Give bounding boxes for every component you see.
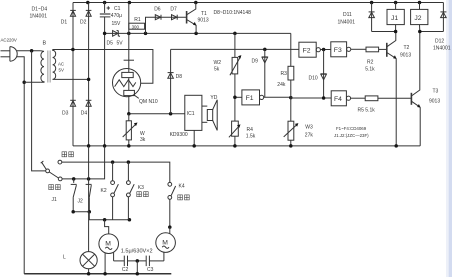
- svg-text:R3: R3: [281, 71, 288, 77]
- selector switch K1 (manual/auto): [41, 160, 62, 181]
- wire: 5V rail (y=33.4): [103, 32, 291, 36]
- svg-text:5k: 5k: [214, 67, 220, 73]
- potentiometer W2 5k: [230, 33, 242, 97]
- label D4: [81, 110, 88, 116]
- svg-text:F1: F1: [246, 95, 254, 102]
- svg-text:D2: D2: [80, 20, 87, 26]
- diode D6: [155, 15, 161, 20]
- label D1: [61, 20, 68, 26]
- svg-text:D7: D7: [170, 6, 177, 12]
- label D2: [80, 20, 87, 26]
- diode D1: [70, 10, 76, 16]
- wire: feed from mains to selector pole: [32, 51, 46, 171]
- svg-text:9013: 9013: [198, 18, 209, 24]
- note F1~F4:CD4069 / J1 J2:JZC-23F: [334, 126, 369, 138]
- wire: mains live to transformer primary top: [17, 49, 41, 53]
- switch K2: [111, 162, 119, 220]
- capacitor C3: [146, 256, 164, 267]
- wire: R2 to T2 base: [379, 48, 387, 50]
- svg-text:D3: D3: [62, 110, 69, 116]
- label W3 27k: [305, 125, 314, 139]
- label C2: [122, 267, 129, 273]
- label T2 9013: [400, 45, 411, 59]
- diode D4: [86, 100, 92, 106]
- label KD9300: [170, 132, 188, 138]
- resistor R2 5.1k: [366, 47, 379, 52]
- potentiometer W3 27k: [284, 97, 299, 146]
- wire: primary bottom: [24, 81, 40, 83]
- svg-text:D4: D4: [81, 110, 88, 116]
- switch K3: [126, 162, 134, 220]
- label AC220V: [1, 38, 17, 43]
- relay coil J1: [387, 3, 404, 32]
- svg-text:D1: D1: [61, 20, 68, 26]
- inverter F4: [331, 91, 350, 106]
- svg-text:D10: D10: [309, 75, 318, 81]
- wire: bottom mains rail: [24, 272, 171, 276]
- inverter F3: [331, 42, 351, 57]
- svg-text:470μ: 470μ: [111, 13, 122, 19]
- svg-text:5V: 5V: [59, 68, 64, 73]
- svg-text:15V: 15V: [112, 21, 122, 27]
- svg-text:F3: F3: [334, 47, 342, 54]
- transistor T2: [387, 32, 397, 59]
- svg-text:24k: 24k: [277, 82, 286, 88]
- resistor R5 5.1k: [365, 96, 378, 101]
- relay contact J1: [71, 179, 77, 212]
- capacitor C1: [100, 3, 111, 17]
- label K2: [101, 188, 107, 194]
- lamp L: [80, 252, 97, 274]
- svg-text:M: M: [162, 239, 168, 246]
- wire: branch from top rail through R1 area down to sensor top (x=128.8): [128, 3, 130, 73]
- wire: C1 negative down to bottom rail: [104, 17, 106, 146]
- svg-text:5.1k: 5.1k: [365, 67, 375, 73]
- transistor T3: [411, 32, 420, 108]
- svg-text:300: 300: [132, 25, 140, 30]
- svg-text:D1~D4: D1~D4: [32, 7, 48, 13]
- label D10: [309, 75, 318, 81]
- wire: D11 to J1 bottom: [372, 30, 398, 34]
- svg-text:1.5k: 1.5k: [246, 134, 256, 140]
- svg-text:KD9300: KD9300: [170, 132, 188, 138]
- svg-text:F1~F4:CD4069: F1~F4:CD4069: [336, 126, 367, 131]
- label K3 exhaust (pai feng): [137, 185, 148, 197]
- svg-text:B: B: [43, 41, 47, 47]
- label C1 470u 15V: [111, 6, 122, 27]
- motor M1: [99, 220, 119, 274]
- zener D10: [321, 50, 327, 99]
- label D6: [154, 6, 161, 12]
- leader line to sensor label: [134, 95, 139, 99]
- label R4 1.5k: [246, 127, 256, 140]
- svg-text:YD: YD: [210, 95, 217, 101]
- label W 3k: [140, 131, 146, 143]
- wire: C2-C3 junction to bottom: [128, 259, 147, 274]
- svg-text:R4: R4: [247, 127, 254, 133]
- wire: secondary top / heater feed: [53, 48, 153, 84]
- transistor T1: [187, 3, 197, 34]
- potentiometer R4 1.5k: [229, 97, 241, 146]
- svg-text:M: M: [105, 240, 111, 247]
- label J1: [52, 197, 58, 203]
- wire: gate input line (y=49.4) from D8 to F2: [171, 48, 299, 52]
- svg-text:J1.J2:(JZC—23F): J1.J2:(JZC—23F): [334, 133, 369, 138]
- relay contact J2: [86, 184, 92, 211]
- label R3 24k: [277, 71, 287, 88]
- label D11 1N4001: [338, 12, 356, 25]
- wire: bottom rail of electronic section (y=145.9): [73, 144, 420, 148]
- svg-text:T3: T3: [433, 89, 439, 95]
- svg-text:R2: R2: [367, 60, 374, 66]
- svg-text:C1: C1: [114, 6, 121, 12]
- svg-text:1N4001: 1N4001: [30, 14, 48, 20]
- motor M2: [156, 227, 176, 261]
- label B: [43, 41, 47, 47]
- svg-text:T1: T1: [201, 11, 207, 17]
- label T1 9013: [198, 11, 209, 24]
- svg-text:R5 5.1k: R5 5.1k: [358, 108, 376, 114]
- IC1 box KD9300: [185, 95, 202, 130]
- svg-text:AC: AC: [58, 62, 64, 67]
- potentiometer W 3k: [123, 114, 138, 146]
- diode D7: [172, 15, 178, 20]
- label D9: [252, 59, 259, 65]
- svg-text:C3: C3: [147, 267, 154, 273]
- wire: W2 node to F1 input and F1 output to R3 node (y=97.3): [233, 96, 292, 100]
- junction dots on top rail: [86, 1, 421, 5]
- wire: IC1 ground lead: [193, 130, 195, 146]
- gas sensor QM-N10: [113, 60, 141, 114]
- label auto (zi dong): [49, 185, 60, 190]
- svg-text:F2: F2: [303, 47, 311, 54]
- wire: F4 input line (y=98.2): [291, 96, 331, 100]
- switch K4: [168, 182, 176, 228]
- svg-text:AC220V: AC220V: [1, 38, 17, 43]
- wire: J2 bottom to D12: [418, 30, 443, 34]
- label L: [63, 255, 66, 261]
- wire: mains neutral down left side: [17, 57, 26, 274]
- label QM N10: [139, 99, 158, 105]
- wire: contact bus down to motor feed line: [89, 212, 131, 222]
- svg-text:W: W: [140, 131, 145, 137]
- transformer B core: [48, 51, 50, 83]
- svg-text:D8: D8: [176, 74, 183, 80]
- svg-text:1N4001: 1N4001: [433, 46, 451, 52]
- svg-text:D5: D5: [107, 40, 114, 46]
- label YD: [210, 95, 217, 101]
- svg-text:9013: 9013: [429, 99, 440, 105]
- svg-text:9013: 9013: [400, 53, 411, 59]
- label D7: [170, 6, 177, 12]
- wire: lamp feed: [88, 146, 90, 252]
- label R1: [134, 17, 141, 23]
- resistor R1 (300): [129, 23, 145, 29]
- svg-text:W3: W3: [305, 125, 313, 131]
- inverter F1: [242, 90, 264, 105]
- label D8: [176, 74, 183, 80]
- zener D9: [262, 49, 268, 97]
- diode D11: [369, 3, 375, 32]
- wire: F2 output node: [320, 48, 330, 52]
- svg-text:J1: J1: [52, 197, 58, 203]
- wire: J1/J2 bottoms joined: [71, 210, 91, 214]
- label D5 5V: [107, 40, 124, 46]
- svg-text:J1: J1: [391, 15, 398, 22]
- svg-text:D6: D6: [154, 6, 161, 12]
- svg-text:J2: J2: [414, 15, 421, 22]
- svg-text:1.5μ/630V×2: 1.5μ/630V×2: [121, 249, 153, 255]
- svg-text:D9: D9: [252, 59, 259, 65]
- svg-text:R1: R1: [134, 17, 141, 23]
- svg-text:3k: 3k: [140, 137, 146, 143]
- label AC 5V: [58, 62, 64, 73]
- svg-text:27k: 27k: [305, 133, 314, 139]
- svg-text:K4: K4: [179, 183, 185, 189]
- svg-text:C2: C2: [122, 267, 129, 273]
- label K4 ventilate (huan qi): [178, 183, 189, 200]
- svg-text:5V: 5V: [117, 40, 124, 46]
- wire: sensor output node (y=113.8): [127, 112, 185, 116]
- transformer B primary winding: [41, 51, 44, 82]
- label 1.5u/630V x2: [121, 249, 153, 255]
- label C3: [147, 267, 154, 273]
- transformer B secondary winding: [53, 50, 56, 80]
- wire: secondary bottom: [53, 78, 91, 82]
- svg-text:1N4001: 1N4001: [338, 19, 356, 25]
- label W2 5k: [214, 60, 222, 73]
- wire: F3 output to R2: [351, 48, 366, 50]
- speaker YD: [202, 100, 217, 131]
- svg-text:QM N10: QM N10: [139, 99, 158, 105]
- label R5 5.1k: [358, 108, 376, 114]
- wire: rectifier branch A (D1/D3, x=73): [72, 3, 74, 146]
- svg-text:K3: K3: [138, 185, 144, 191]
- svg-text:D8~D10:1N4148: D8~D10:1N4148: [214, 10, 252, 16]
- label D12 1N4001: [433, 39, 451, 52]
- svg-text:J2: J2: [78, 198, 84, 204]
- wire: top positive rail: [73, 2, 443, 4]
- wire: auto line (y=178.9): [62, 146, 105, 181]
- diode D12: [440, 3, 446, 32]
- label J2: [78, 198, 84, 204]
- diode D2: [86, 10, 92, 16]
- svg-text:D11: D11: [343, 12, 352, 18]
- wire: T3 emitter to bottom rail: [419, 107, 421, 146]
- label D1~D4 1N4001: [30, 7, 48, 20]
- svg-text:L: L: [63, 255, 66, 261]
- label R2 5.1k: [365, 60, 375, 73]
- zener D8: [168, 49, 174, 113]
- plug X1: [1, 47, 18, 62]
- inverter F2: [299, 42, 321, 57]
- label T3 9013: [429, 89, 440, 105]
- wire: F4 output to R5: [351, 97, 366, 99]
- svg-text:F4: F4: [334, 96, 342, 103]
- resistor R3 24k: [288, 33, 294, 97]
- wire: R5 to T3 base: [378, 97, 412, 99]
- relay coil J2: [411, 3, 428, 32]
- label D3: [62, 110, 69, 116]
- label D8~D10:1N4148: [214, 10, 252, 16]
- wire: R1 right side up to D6 line: [146, 17, 187, 33]
- svg-text:T2: T2: [404, 45, 410, 51]
- zener D5: [113, 30, 120, 36]
- svg-text:D12: D12: [435, 39, 444, 45]
- wire: T2 emitter to bottom rail: [395, 59, 397, 146]
- label manual (shou dong): [62, 152, 73, 157]
- wire: manual line (y=162.1): [62, 160, 170, 182]
- capacitor C2: [114, 256, 128, 267]
- svg-text:W2: W2: [214, 60, 222, 66]
- diode D3: [70, 100, 76, 106]
- wire: rectifier branch B (D2/D4, x=88.6): [88, 3, 90, 146]
- svg-text:IC1: IC1: [187, 111, 195, 117]
- svg-text:K2: K2: [101, 188, 107, 194]
